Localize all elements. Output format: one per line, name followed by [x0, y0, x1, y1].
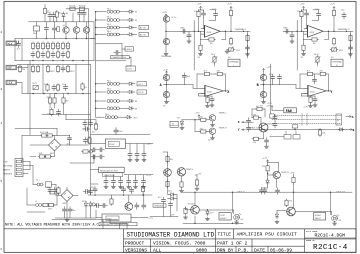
node A arrow [346, 116, 354, 120]
transistor Q14 [163, 91, 169, 97]
svg-text:REGULATOR 7915 HEATSINK: REGULATOR 7915 HEATSINK [100, 223, 129, 226]
diode D21 [262, 178, 270, 188]
node B arrow [350, 129, 355, 133]
svg-text:+17V: +17V [163, 69, 169, 71]
capacitor C77 [247, 118, 251, 125]
op-amp U4 [304, 85, 330, 96]
capacitor C29 [98, 148, 105, 152]
svg-text:FILE NAME: FILE NAME [306, 230, 318, 233]
svg-text:0R22: 0R22 [50, 71, 56, 73]
wire bottom rail [15, 60, 94, 62]
potentiometer RV1 [225, 47, 241, 59]
capacitor C81 [273, 121, 277, 128]
wire bridge2 [50, 188, 78, 219]
capacitor C85 [313, 74, 317, 84]
thermistor TH1 [211, 54, 218, 66]
resistor R52 [194, 10, 200, 18]
svg-text:1M: 1M [210, 43, 213, 45]
diode D11 [338, 128, 344, 131]
diode D4 [127, 33, 136, 36]
wire fan dashed 2 [272, 119, 341, 121]
wire fault bottom rail [183, 191, 352, 193]
svg-text:NOTE: ALL VOLTAGES MEASURED WI: NOTE: ALL VOLTAGES MEASURED WITH 230V/11… [5, 223, 101, 228]
capacitor C78 [247, 125, 251, 132]
inductor L1 [35, 201, 42, 207]
svg-text:+17V: +17V [162, 12, 168, 14]
svg-text:THERMAL-R: THERMAL-R [338, 28, 351, 31]
title block outline [4, 228, 356, 230]
svg-text:VISION. FOCUS. 7000: VISION. FOCUS. 7000 [153, 241, 206, 247]
node X [225, 90, 231, 95]
wire rail4 [42, 113, 91, 115]
resistor R7 [41, 42, 50, 50]
resistor R16 [36, 51, 39, 59]
svg-text:R2C1C-4.DGM: R2C1C-4.DGM [315, 233, 346, 239]
wire lower link [199, 95, 213, 97]
resistor R8 [46, 42, 49, 50]
svg-text:CHASSIS: CHASSIS [3, 173, 13, 176]
wire output [327, 30, 354, 32]
relay RLA [33, 22, 40, 35]
svg-text:0V: 0V [8, 67, 12, 70]
svg-text:FS1 T4A: FS1 T4A [40, 131, 49, 134]
ground [119, 185, 123, 189]
wire lower link [302, 94, 316, 97]
svg-text:+17V: +17V [227, 4, 233, 6]
svg-text:+17V: +17V [300, 4, 306, 6]
power +17V [162, 12, 168, 17]
capacitor C36 [134, 178, 138, 185]
node junctions bus [95, 11, 97, 13]
resistor R5 [31, 42, 40, 50]
wire bottom link [183, 216, 243, 223]
capacitor C49 [349, 45, 353, 56]
wire mains feed [15, 128, 57, 162]
node junction [165, 31, 167, 33]
svg-text:FAULT-L: FAULT-L [238, 190, 247, 193]
svg-text:BC182: BC182 [188, 204, 195, 206]
capacitor C82 [260, 187, 264, 194]
resistor R41 [47, 108, 53, 116]
svg-text:FAULT-R: FAULT-R [337, 190, 346, 193]
capacitor C65 [142, 193, 146, 209]
capacitor C42 [187, 31, 191, 43]
node junctions output [225, 31, 227, 33]
resistor R85 [57, 27, 60, 32]
label box REGULATOR2 [99, 222, 137, 226]
svg-text:+LV: +LV [8, 42, 13, 45]
resistor R95 [290, 172, 296, 192]
transistor Q24 [125, 195, 133, 210]
resistor R89 [18, 65, 26, 73]
svg-text:0R22: 0R22 [70, 71, 76, 73]
capacitor C61 [130, 187, 134, 194]
capacitor C63 [101, 204, 108, 208]
svg-text:M: M [337, 120, 339, 122]
resistor R61 [301, 40, 306, 59]
svg-text:THERMAL-L: THERMAL-L [235, 28, 248, 31]
transistor Q19 [208, 127, 227, 141]
connector fan assy [270, 131, 300, 139]
resistor R96 [180, 181, 184, 193]
wire -17v [150, 199, 178, 217]
zener D17 [168, 195, 178, 201]
node junctions [198, 31, 200, 33]
connector TX [170, 121, 178, 127]
diode D10 [177, 118, 184, 130]
resistor R91 [88, 137, 91, 145]
svg-text:+17V: +17V [197, 173, 203, 175]
node X arrow [238, 121, 246, 124]
node Y [328, 90, 334, 95]
capacitor C73 [47, 187, 53, 194]
resistor R2 [78, 6, 87, 11]
resistor R57 [246, 34, 249, 42]
resistor R11 [61, 42, 70, 50]
capacitor C70 [67, 135, 72, 145]
resistor R92 [82, 150, 90, 153]
resistor R59 [332, 9, 335, 31]
transistor Q15 [260, 74, 266, 80]
wire mid rail [15, 38, 94, 40]
svg-text:-17V: -17V [149, 218, 154, 220]
node junctions neg rail [94, 194, 96, 196]
resistor R84 [110, 195, 113, 206]
node Y arrow [238, 129, 246, 132]
ground [164, 52, 168, 56]
node junctions mid rail [46, 38, 48, 40]
capacitor C11 [61, 65, 65, 72]
capacitor C68 [44, 22, 48, 32]
wire column drops [45, 13, 84, 22]
svg-text:+17V: +17V [266, 105, 272, 107]
wire input rail [283, 30, 308, 32]
wire fan feed [270, 64, 272, 114]
transistor Q11 [163, 16, 177, 22]
svg-text:PART 1 OF 2: PART 1 OF 2 [217, 241, 248, 247]
relay RL8 [96, 107, 128, 110]
svg-text:REGULATOR 7817: REGULATOR 7817 [100, 169, 119, 172]
svg-text:R1 10k: R1 10k [69, 6, 77, 8]
ground [127, 185, 131, 189]
node junction [267, 173, 269, 175]
svg-text:RLA: RLA [33, 32, 38, 35]
wire feedback loop [201, 31, 226, 39]
label box CHASSIS2 [153, 204, 166, 208]
motor M1 [336, 114, 342, 125]
wire lower psu feed [27, 188, 61, 205]
potentiometer RV3 [33, 83, 39, 90]
ground [104, 185, 108, 189]
wire level branch [96, 44, 125, 59]
resistor R72 [252, 114, 260, 119]
transistor Q20 [268, 171, 290, 178]
resistor R1 [69, 6, 77, 11]
capacitor C2 [52, 12, 56, 19]
capacitor C4 [31, 51, 35, 58]
wire input rail [180, 30, 205, 32]
power +17V [330, 4, 336, 10]
svg-text:9000: 9000 [196, 248, 207, 254]
capacitor C60 [120, 186, 126, 193]
capacitor C7 [61, 51, 65, 58]
label box O/P L [137, 82, 147, 86]
svg-text:-17V: -17V [170, 215, 175, 217]
ground [142, 158, 146, 162]
connector fan pins [270, 114, 274, 118]
capacitor C24 [114, 128, 123, 135]
label box THERMAL L [228, 59, 240, 67]
capacitor C5 [41, 51, 45, 58]
svg-text:L200C: L200C [109, 144, 116, 146]
capacitor C3 [17, 41, 21, 51]
resistor R76 [195, 175, 199, 190]
diode D8 [127, 107, 137, 111]
capacitor C62 [94, 204, 101, 208]
wire terminal chain [166, 17, 180, 52]
regulator REG1 [105, 139, 125, 148]
diode D2 [127, 18, 137, 22]
resistor R38 [56, 84, 59, 92]
resistor R67 [306, 71, 314, 76]
resistor R37 [44, 84, 49, 92]
capacitor C44 [305, 11, 309, 18]
capacitor C79 [265, 138, 269, 149]
wire chassis link [96, 57, 131, 66]
capacitor C34 [119, 178, 123, 185]
resistor R66 [206, 96, 210, 108]
wire temp stack [182, 118, 209, 132]
svg-text:AC IN: AC IN [140, 34, 146, 37]
ground [165, 100, 169, 104]
regulator REG3 [102, 214, 131, 222]
label box THERMAL R [331, 59, 343, 67]
node junctions [301, 31, 303, 33]
label box CHASSIS [111, 56, 130, 60]
wire sub branch [66, 114, 96, 125]
capacitor C84 [276, 179, 280, 195]
zener D12 [200, 209, 215, 220]
resistor R9 [51, 42, 60, 50]
diode D14 [275, 211, 286, 224]
ground [65, 218, 69, 222]
node junctions output [328, 31, 330, 33]
resistor R25 [56, 65, 59, 73]
transistor Q17 [209, 112, 227, 126]
relay RL3 [96, 24, 128, 29]
transistor Q13 [163, 74, 169, 80]
connector fan mid [302, 114, 307, 127]
svg-text:+17V: +17V [146, 175, 152, 177]
resistor R88 [62, 97, 69, 105]
capacitor C1 [47, 12, 52, 19]
capacitor C19 [82, 120, 87, 130]
svg-text:FAULT: FAULT [220, 217, 227, 220]
resistor R44 [46, 134, 54, 137]
capacitor C26 [135, 151, 139, 158]
wire B chain [263, 72, 265, 101]
capacitor C64 [135, 203, 139, 210]
svg-text:TEMP+R: TEMP+R [219, 127, 228, 129]
svg-text:NEUTRAL: NEUTRAL [3, 165, 14, 168]
resistor R18 [56, 51, 59, 59]
capacitor C35 [127, 178, 131, 185]
LED D13 [234, 213, 244, 224]
svg-text:VERSIONS: VERSIONS [125, 248, 147, 254]
capacitor C16 [52, 84, 56, 91]
wire top links [302, 10, 308, 32]
resistor R60 [311, 38, 319, 45]
resistor R79 [184, 207, 191, 219]
resistor R73 [252, 137, 260, 144]
resistor R12 [66, 42, 69, 50]
transistor Q21 [188, 204, 199, 215]
svg-text:DRN BY: DRN BY [217, 248, 234, 254]
svg-text:TEMP-R: TEMP-R [281, 172, 289, 174]
capacitor C69 [53, 22, 57, 33]
power +17V [262, 67, 272, 72]
wire reg2 out [91, 170, 153, 185]
svg-text:Y: Y [238, 129, 240, 132]
relay RL5 [96, 81, 128, 86]
wire connector pins [23, 162, 33, 174]
ground [142, 185, 146, 189]
label box 12V [126, 66, 136, 71]
op-amp U2 [304, 25, 326, 37]
svg-text:X: X [238, 121, 240, 124]
resistor R87 [53, 97, 56, 105]
wire left drop [296, 21, 298, 71]
label box LEVEL [125, 47, 134, 51]
svg-text:CHASSIS 12V0: CHASSIS 12V0 [112, 56, 127, 59]
ground [262, 100, 266, 104]
wire reg input [91, 134, 153, 143]
wire feedback loop [300, 74, 328, 91]
capacitor C75 [83, 190, 90, 194]
wire cap bus [27, 208, 118, 220]
resistor R39 [81, 83, 88, 91]
capacitor C53 [278, 74, 282, 81]
svg-text:+17V: +17V [267, 103, 273, 105]
SECTION: title block [4, 229, 356, 254]
resistor R26 [66, 65, 75, 73]
resistor R82 [166, 180, 169, 188]
resistor R3 [43, 7, 50, 15]
svg-text:FAULT-L: FAULT-L [251, 127, 260, 130]
wire emitter drops [37, 31, 87, 39]
svg-text:+17V: +17V [262, 158, 268, 160]
resistor R47 [47, 203, 55, 210]
capacitor C21 [63, 207, 67, 214]
wire drops to rail4 [50, 94, 64, 115]
wire left drop [193, 21, 195, 71]
resistor R68 [319, 71, 327, 76]
svg-text:10R: 10R [39, 153, 43, 155]
power +17V [197, 4, 203, 10]
label box AC IN L [139, 25, 149, 29]
thermistor TH2 [314, 54, 321, 66]
capacitor C52 [269, 74, 275, 81]
wire fan dashed 3 [272, 123, 341, 125]
wire top links [199, 10, 205, 32]
diode D3 [127, 26, 136, 29]
transistor Q1 [63, 22, 70, 33]
resistor R78 [318, 129, 326, 137]
node junctions rail3 [32, 93, 34, 95]
zener D20 [89, 201, 92, 207]
svg-text:+17V: +17V [197, 4, 203, 6]
wire led link [208, 210, 234, 214]
diode D18 [62, 12, 69, 18]
svg-text:RIGHT: RIGHT [315, 215, 322, 217]
capacitor C48 [290, 31, 294, 43]
capacitor C25 [128, 151, 132, 158]
resistor R94 [256, 106, 264, 111]
capacitor C57 [169, 201, 173, 208]
connector PL3 -LV [6, 80, 17, 85]
label box O/P R [137, 90, 147, 94]
wire left stub [14, 39, 16, 61]
capacitor C28 [91, 148, 98, 152]
svg-text:B: B [257, 84, 259, 88]
capacitor C20 [89, 120, 93, 127]
relay RL9 [96, 114, 126, 119]
inductor L3 [92, 203, 95, 206]
label box LEFT FAULT [219, 213, 231, 221]
wire drops [195, 192, 331, 214]
wire drop stubs [103, 220, 127, 229]
regulator REG2 [99, 167, 125, 177]
transformer T1 [36, 180, 52, 188]
relay RL2 [96, 17, 128, 22]
svg-text:+40V: +40V [146, 144, 152, 146]
transistor Q25 [177, 168, 194, 181]
svg-text:+17V: +17V [303, 106, 309, 108]
resistor R45 [38, 153, 46, 158]
power +17V [227, 4, 233, 10]
wire feedback loop [304, 31, 329, 39]
capacitor C37 [142, 178, 146, 185]
capacitor C72 [84, 137, 88, 144]
resistor R4 [55, 11, 62, 19]
resistor R17 [46, 51, 49, 59]
resistor R75 [262, 162, 279, 172]
inductor L2 [89, 150, 92, 153]
node junctions [194, 191, 196, 193]
svg-text:R2C1C-4: R2C1C-4 [313, 244, 348, 252]
svg-text:C2 1u: C2 1u [171, 17, 177, 19]
svg-text:TEMP-L: TEMP-L [186, 169, 194, 171]
svg-text:TITLE: TITLE [218, 232, 232, 238]
zener D16 [168, 191, 175, 197]
resistor R69 [309, 96, 313, 108]
bridge rectifier BR1 [49, 139, 61, 155]
zener D19 [82, 201, 88, 208]
wire vertical bus [91, 12, 96, 118]
node B [257, 84, 265, 88]
power +17V [266, 105, 272, 107]
label box FAN [284, 108, 297, 113]
wire 0V link [17, 64, 29, 93]
capacitor C46 [341, 10, 346, 19]
power +17V [163, 69, 169, 74]
resistor R93 [57, 187, 60, 195]
svg-text:FAULT: FAULT [315, 217, 322, 220]
transistor Q16 [260, 91, 266, 97]
resistor R86 [47, 97, 52, 105]
capacitor C54 [313, 96, 317, 107]
wire feedback loop [197, 74, 225, 91]
